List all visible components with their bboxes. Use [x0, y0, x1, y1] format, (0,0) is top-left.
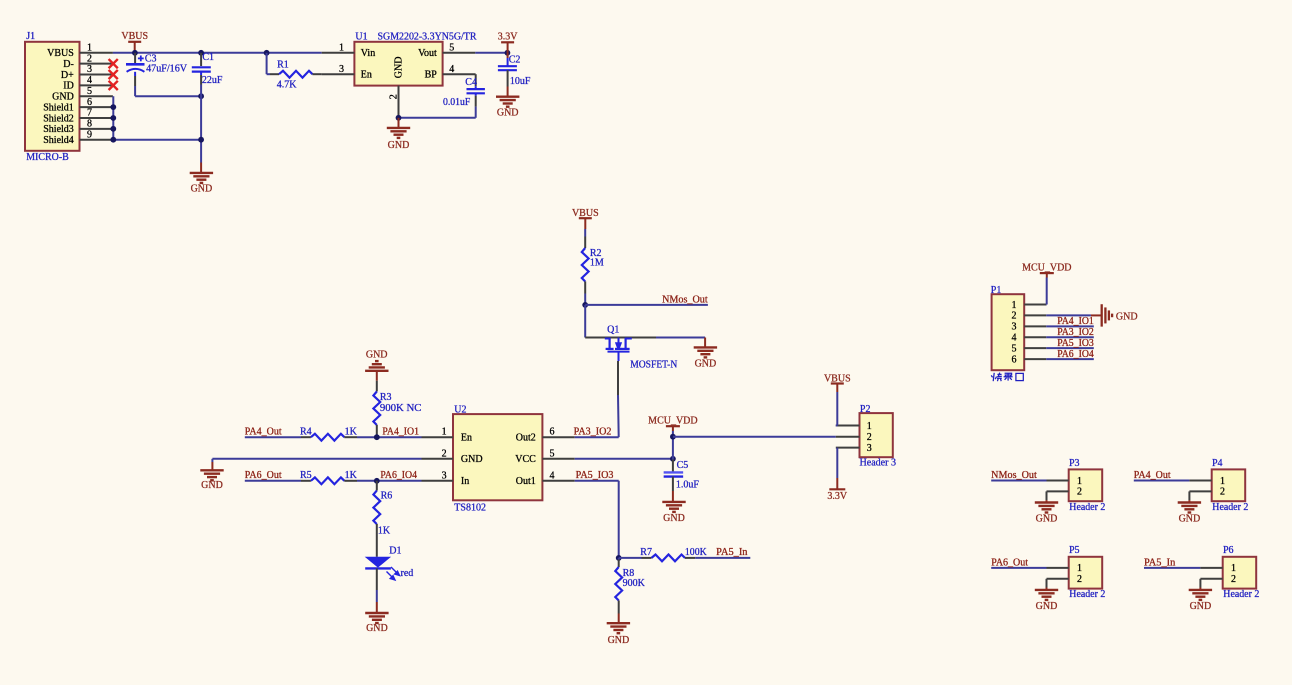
- svg-text:In: In: [461, 476, 469, 487]
- svg-text:0.01uF: 0.01uF: [443, 97, 471, 108]
- power 3.3V (top): [498, 31, 519, 53]
- svg-text:22uF: 22uF: [202, 75, 223, 86]
- ground GND (right of Q1): [694, 338, 717, 370]
- svg-text:PA4_IO1: PA4_IO1: [1057, 316, 1094, 327]
- ground GND (below R8): [607, 614, 630, 647]
- svg-text:PA4_Out: PA4_Out: [245, 427, 282, 438]
- svg-text:P5: P5: [1069, 545, 1080, 556]
- svg-text:900K NC: 900K NC: [380, 403, 422, 414]
- node PA5_IO3 (at P1 pin 5): [1046, 338, 1094, 349]
- svg-text:4.7K: 4.7K: [277, 80, 298, 91]
- wire R2 to Q1 drain: [584, 305, 586, 338]
- wire MCU_VDD to P1 pin1: [1045, 278, 1047, 305]
- wire P4 pin 2 to GND: [1189, 491, 1211, 502]
- svg-text:Shield4: Shield4: [43, 135, 74, 146]
- junction NMos_Out node: [582, 302, 588, 308]
- wire P3 pin 2 to GND: [1047, 491, 1069, 502]
- svg-text:1: 1: [1077, 563, 1082, 574]
- svg-text:PA6_IO4: PA6_IO4: [380, 470, 417, 481]
- svg-text:GND: GND: [1116, 312, 1138, 323]
- svg-text:4: 4: [449, 64, 454, 75]
- svg-text:PA4_IO1: PA4_IO1: [382, 427, 419, 438]
- resistor R3 900K NC: [373, 371, 421, 437]
- svg-text:Out2: Out2: [516, 433, 536, 444]
- svg-text:Header 2: Header 2: [1223, 589, 1259, 600]
- svg-text:47uF/16V: 47uF/16V: [146, 63, 188, 74]
- svg-text:R5: R5: [300, 470, 312, 481]
- svg-text:2: 2: [867, 432, 872, 443]
- svg-text:C2: C2: [509, 55, 521, 66]
- junction on J1 pin 9: [110, 137, 116, 143]
- svg-text:Q1: Q1: [607, 325, 619, 336]
- svg-text:3: 3: [442, 470, 447, 481]
- svg-text:5: 5: [1012, 343, 1017, 354]
- svg-text:U1: U1: [355, 31, 367, 42]
- svg-text:Shield3: Shield3: [43, 124, 74, 135]
- svg-text:PA6_Out: PA6_Out: [245, 470, 282, 481]
- connector P5 Header 2: [1069, 545, 1106, 600]
- wire P1 pin2 to side GND: [1046, 314, 1101, 316]
- wire C4 return to U1 GND pin: [399, 117, 476, 119]
- svg-text:1: 1: [1220, 476, 1225, 487]
- power VBUS (top left): [121, 31, 148, 53]
- svg-text:Header 2: Header 2: [1069, 502, 1105, 513]
- resistor R1 4.7K: [267, 53, 322, 91]
- svg-text:red: red: [401, 568, 414, 579]
- svg-text:Out1: Out1: [516, 476, 536, 487]
- svg-text:6: 6: [550, 427, 555, 438]
- svg-text:GND: GND: [394, 57, 405, 79]
- svg-text:GND: GND: [191, 184, 213, 195]
- svg-text:6: 6: [1012, 354, 1017, 365]
- svg-text:GND: GND: [52, 92, 74, 103]
- wire U2 VCC to MCU_VDD: [575, 458, 673, 460]
- svg-text:PA5_In: PA5_In: [716, 547, 747, 558]
- svg-text:2: 2: [1077, 487, 1082, 498]
- power 3.3V (below P2): [827, 478, 848, 502]
- ground GND (left of U2): [200, 470, 223, 491]
- svg-text:PA5_IO3: PA5_IO3: [576, 470, 614, 481]
- svg-text:GND: GND: [461, 454, 483, 465]
- resistor R5 1K / net PA6_Out-PA6_IO4: [245, 470, 422, 484]
- svg-text:2: 2: [1077, 574, 1082, 585]
- svg-text:R1: R1: [277, 59, 289, 70]
- ground GND (right of P1): [1102, 304, 1138, 326]
- power VBUS (above P2): [824, 373, 851, 392]
- svg-text:4: 4: [550, 470, 555, 481]
- svg-text:GND: GND: [1036, 601, 1058, 612]
- no-connect X on J1 pin 2: [109, 59, 118, 68]
- svg-text:2: 2: [388, 94, 399, 99]
- wire D1 cathode to GND: [376, 568, 378, 613]
- svg-text:5: 5: [449, 42, 454, 53]
- capacitor C1 22uF: [192, 52, 223, 86]
- ground GND (below P5): [1035, 590, 1058, 612]
- svg-text:3: 3: [1012, 322, 1017, 333]
- svg-text:PA5_IO3: PA5_IO3: [1057, 338, 1094, 349]
- svg-text:GND: GND: [663, 513, 685, 524]
- junction R7/R8 node: [616, 555, 622, 561]
- svg-text:Shield2: Shield2: [43, 113, 74, 124]
- svg-text:3.3V: 3.3V: [827, 491, 848, 502]
- svg-text:P1: P1: [991, 285, 1002, 296]
- capacitor C4 0.01uF: [443, 74, 485, 118]
- junction MCU_VDD/P2 wire: [670, 434, 676, 440]
- node NMos_Out (at P3 pin 1): [991, 470, 1068, 481]
- svg-text:R6: R6: [381, 490, 393, 501]
- capacitor C2 10uF: [498, 53, 531, 87]
- resistor R8 900K: [615, 558, 645, 614]
- junction C1/shield wire: [198, 137, 204, 143]
- svg-text:PA3_IO2: PA3_IO2: [574, 427, 612, 438]
- svg-text:900K: 900K: [623, 578, 646, 589]
- svg-text:P3: P3: [1069, 458, 1080, 469]
- svg-text:4: 4: [1012, 333, 1017, 344]
- junction VBUS/C3: [132, 50, 138, 56]
- svg-text:GND: GND: [388, 140, 410, 151]
- svg-text:GND: GND: [366, 623, 388, 634]
- svg-text:2: 2: [1220, 487, 1225, 498]
- svg-text:2: 2: [1231, 574, 1236, 585]
- svg-text:C4: C4: [465, 77, 477, 88]
- svg-text:VBUS: VBUS: [824, 373, 851, 384]
- svg-text:3.3V: 3.3V: [498, 31, 519, 42]
- node PA3_IO2: [574, 427, 619, 438]
- ground GND (below U1): [387, 118, 410, 151]
- svg-text:1.0uF: 1.0uF: [676, 480, 700, 491]
- ground GND (below C1): [190, 163, 213, 195]
- wire P2 pin3 to 3.3V: [836, 448, 838, 478]
- svg-text:D1: D1: [389, 545, 401, 556]
- connector P6 Header 2: [1223, 545, 1260, 600]
- svg-text:100K: 100K: [685, 547, 708, 558]
- wire P6 pin 2 to GND: [1200, 579, 1222, 590]
- svg-text:P2: P2: [860, 404, 871, 415]
- svg-text:J1: J1: [26, 31, 35, 42]
- node PA5_In (at P6 pin 1): [1144, 557, 1223, 568]
- svg-text:3: 3: [339, 64, 344, 75]
- LED D1 red: [365, 545, 414, 580]
- node PA6_IO4 (at P1 pin 6): [1046, 349, 1094, 360]
- svg-text:En: En: [461, 433, 472, 444]
- junction on J1 pin 7: [110, 115, 116, 121]
- svg-text:Header 3: Header 3: [860, 458, 897, 469]
- power MCU_VDD (above P1): [1022, 263, 1071, 278]
- svg-text:PA4_Out: PA4_Out: [1134, 470, 1171, 481]
- node PA5_IO3: [575, 470, 619, 558]
- label P1 Chinese (programming port): [991, 373, 1023, 382]
- ground GND (above R3): [365, 350, 388, 371]
- svg-text:Vin: Vin: [361, 48, 375, 59]
- wire MCU_VDD column: [672, 431, 674, 473]
- svg-text:R7: R7: [640, 547, 652, 558]
- power VBUS (above R2): [572, 208, 599, 229]
- ground GND (below P3): [1035, 503, 1058, 525]
- svg-text:Header 2: Header 2: [1069, 589, 1105, 600]
- svg-text:MCU_VDD: MCU_VDD: [1022, 263, 1071, 274]
- svg-text:5: 5: [550, 448, 555, 459]
- svg-text:Header 2: Header 2: [1212, 502, 1248, 513]
- connector P2 Header 3: [836, 404, 896, 469]
- ground GND (below C2): [496, 87, 519, 119]
- svg-text:BP: BP: [425, 69, 438, 80]
- svg-text:1K: 1K: [378, 525, 391, 536]
- node PA3_IO2 (at P1 pin 4): [1046, 327, 1094, 338]
- svg-text:NMos_Out: NMos_Out: [662, 294, 708, 305]
- wire VBUS rail: [113, 52, 322, 54]
- wire GND bus J1 pins 5-9: [113, 96, 201, 139]
- svg-text:C5: C5: [677, 460, 689, 471]
- svg-text:GND: GND: [497, 108, 519, 119]
- svg-text:C1: C1: [202, 52, 214, 63]
- svg-text:1: 1: [867, 421, 872, 432]
- svg-text:VBUS: VBUS: [47, 48, 74, 59]
- svg-text:VBUS: VBUS: [121, 31, 148, 42]
- svg-text:GND: GND: [695, 359, 717, 370]
- svg-text:U2: U2: [454, 404, 466, 415]
- wire C1 bottom to GND: [200, 85, 202, 163]
- connector P4 Header 2: [1212, 458, 1249, 513]
- svg-text:PA3_IO2: PA3_IO2: [1057, 327, 1094, 338]
- svg-text:VBUS: VBUS: [572, 208, 599, 219]
- svg-text:PA6_Out: PA6_Out: [991, 557, 1028, 568]
- no-connect X on J1 pin 4: [109, 81, 118, 90]
- svg-text:1: 1: [1077, 476, 1082, 487]
- svg-text:NMos_Out: NMos_Out: [991, 470, 1037, 481]
- wire Vout to 3.3V: [475, 52, 507, 54]
- node PA4_IO1 (at P1 pin 3): [1046, 316, 1094, 327]
- svg-text:GND: GND: [201, 480, 223, 491]
- svg-text:1: 1: [1012, 300, 1017, 311]
- junction VCC/MCU_VDD: [670, 456, 676, 462]
- svg-text:PA6_IO4: PA6_IO4: [1057, 349, 1094, 360]
- wire U2 GND pin to ground: [212, 459, 421, 471]
- connector P3 Header 2: [1069, 458, 1106, 513]
- svg-text:10uF: 10uF: [510, 76, 531, 87]
- capacitor C5 1.0uF: [664, 460, 700, 490]
- wire VBUS to P2 pin1: [836, 392, 838, 426]
- junction C3/C1 bottom: [198, 93, 204, 99]
- svg-text:3: 3: [867, 443, 872, 454]
- junction Vout/C2: [505, 50, 511, 56]
- node PA6_Out (at P5 pin 1): [991, 557, 1068, 568]
- svg-text:Vout: Vout: [418, 48, 437, 59]
- junction R5/R6 node PA6_IO4: [374, 478, 380, 484]
- ground GND (below D1): [365, 613, 388, 634]
- svg-text:ID: ID: [63, 81, 74, 92]
- transistor Q1 MOSFET-N: [585, 325, 677, 371]
- svg-text:MCU_VDD: MCU_VDD: [648, 416, 697, 427]
- svg-text:R4: R4: [300, 427, 312, 438]
- svg-text:GND: GND: [608, 635, 630, 646]
- J1 pin stubs 1-9: [80, 53, 113, 140]
- ground GND (below P4): [1178, 503, 1201, 525]
- svg-text:R3: R3: [380, 392, 392, 403]
- junction U1 GND pin: [396, 115, 402, 121]
- junction VBUS/C1: [198, 50, 204, 56]
- svg-text:1K: 1K: [345, 470, 358, 481]
- capacitor C3 47uF/16V: [126, 53, 188, 96]
- svg-text:P6: P6: [1223, 545, 1234, 556]
- op-amp U1 SGM2202-3.3YN5G/TR: [322, 31, 477, 117]
- svg-text:PA5_In: PA5_In: [1144, 557, 1175, 568]
- op-amp U2 TS8102: [422, 404, 575, 513]
- node NMos_Out: [585, 294, 708, 305]
- node PA4_Out (at P4 pin 1): [1134, 470, 1212, 481]
- svg-text:GND: GND: [366, 350, 388, 361]
- svg-text:En: En: [361, 69, 372, 80]
- junction on J1 pin 8: [110, 126, 116, 132]
- resistor R7 100K / node PA5_In: [619, 547, 751, 561]
- wire Q1 source to GND: [656, 337, 705, 339]
- connector J1 MICRO-B: [25, 31, 92, 163]
- svg-text:D-: D-: [63, 59, 74, 70]
- svg-text:GND: GND: [1179, 514, 1201, 525]
- svg-text:2: 2: [442, 448, 447, 459]
- svg-text:MICRO-B: MICRO-B: [26, 152, 69, 163]
- svg-text:VCC: VCC: [515, 454, 536, 465]
- junction VBUS/R1: [264, 50, 270, 56]
- svg-text:1: 1: [442, 427, 447, 438]
- svg-text:TS8102: TS8102: [454, 502, 486, 513]
- svg-text:GND: GND: [1036, 514, 1058, 525]
- power MCU_VDD (above C5): [648, 416, 697, 432]
- junction R3/R4 node PA4_IO1: [374, 434, 380, 440]
- svg-text:MOSFET-N: MOSFET-N: [630, 359, 677, 370]
- svg-text:1M: 1M: [590, 258, 604, 269]
- svg-text:D+: D+: [61, 70, 74, 81]
- wire P5 pin 2 to GND: [1047, 579, 1069, 590]
- wire MCU_VDD to P2 pin2: [673, 436, 836, 438]
- svg-text:SGM2202-3.3YN5G/TR: SGM2202-3.3YN5G/TR: [378, 31, 477, 42]
- junction on J1 pin 6: [110, 104, 116, 110]
- resistor R4 1K / net PA4_Out-PA4_IO1: [245, 427, 422, 441]
- svg-text:1: 1: [1231, 563, 1236, 574]
- svg-text:2: 2: [1012, 311, 1017, 322]
- ground GND (below C5): [662, 477, 685, 524]
- svg-text:P4: P4: [1212, 458, 1223, 469]
- resistor R2 1M: [582, 229, 604, 305]
- svg-text:1: 1: [339, 42, 344, 53]
- resistor R6 1K: [373, 481, 392, 557]
- svg-text:1K: 1K: [345, 427, 358, 438]
- ground GND (below P6): [1189, 590, 1212, 612]
- no-connect X on J1 pin 3: [109, 70, 118, 79]
- wire Q1 gate down: [617, 361, 620, 437]
- connector P1 (programming port): [991, 285, 1047, 370]
- wire C3 to C1 column: [135, 95, 201, 97]
- svg-text:Shield1: Shield1: [43, 102, 74, 113]
- svg-text:GND: GND: [1190, 601, 1212, 612]
